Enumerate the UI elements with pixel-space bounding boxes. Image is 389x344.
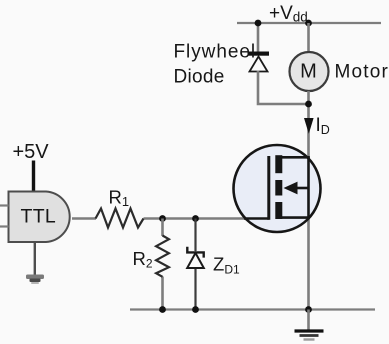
wire: +5V supply lead (thick black) <box>32 161 35 193</box>
node: zener top junction <box>192 215 199 222</box>
diode D1 triangle (flywheel diode) <box>250 57 268 72</box>
ground symbol <box>295 329 324 332</box>
TTL gate U1 body <box>9 192 70 243</box>
wire: diode anode lead down and right to motor bottom node <box>258 71 309 105</box>
svg-text:TTL: TTL <box>21 206 57 228</box>
node: R2 top junction <box>159 215 166 222</box>
wire: R2 leads <box>161 219 164 237</box>
diode D1 cathode bar (flywheel diode) <box>248 52 270 56</box>
svg-text:Diode: Diode <box>174 67 225 88</box>
MOSFET body arrow <box>284 182 298 195</box>
wire: motor top lead <box>307 23 310 53</box>
TTL ground symbol <box>26 275 44 280</box>
MOSFET drain connector <box>281 156 310 159</box>
MOSFET right vertical connector <box>307 157 310 219</box>
node: rail-motor junction <box>305 20 312 27</box>
svg-text:Motor: Motor <box>335 62 389 83</box>
MOSFET Q1 body circle <box>234 145 321 232</box>
wire: drain wire from motor through MOSFET to bottom rail <box>307 91 310 310</box>
MOSFET channel bar middle (body) <box>275 180 282 196</box>
node: zener bottom junction <box>192 306 199 313</box>
node: R2 bottom junction <box>159 306 166 313</box>
resistor R2 <box>156 236 169 277</box>
node: rail-diode junction <box>255 20 262 27</box>
MOSFET channel bar top (drain) <box>275 155 282 173</box>
zener diode ZD1 cathode bar <box>187 247 203 258</box>
node: source bottom junction <box>305 306 312 313</box>
wire: gate wire from TTL output to MOSFET <box>72 217 96 219</box>
svg-text:+5V: +5V <box>13 141 50 163</box>
svg-text:Flywheel: Flywheel <box>174 42 257 63</box>
current arrow ID <box>304 118 314 134</box>
resistor R1 <box>96 209 144 228</box>
node: motor bottom / diode junction <box>305 101 312 108</box>
MOSFET channel bar bottom (source) <box>275 202 282 219</box>
wire: TTL ground lead <box>34 242 36 276</box>
zener diode ZD1 triangle <box>187 253 204 268</box>
wire: TTL input stub 1 <box>0 204 9 206</box>
wire: bottom ground rail <box>130 308 375 310</box>
MOSFET body connector <box>295 187 309 190</box>
wire: gate lead inside circle <box>244 217 269 220</box>
wire: zener leads <box>194 219 196 252</box>
MOSFET gate plate <box>267 156 270 220</box>
wire: +Vdd top rail <box>237 22 381 24</box>
wire: ground stem <box>307 310 310 331</box>
wire: flywheel diode top lead <box>257 23 260 52</box>
MOSFET source connector <box>281 216 309 219</box>
motor M1 circle <box>290 52 329 91</box>
svg-text:M: M <box>300 61 317 83</box>
wire: TTL input stub 2 <box>0 225 9 227</box>
